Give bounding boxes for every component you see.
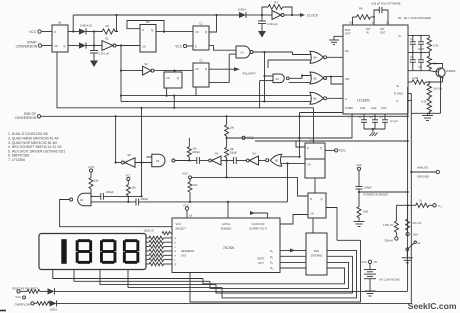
wire B1 Q-bar down and right (57, 52, 314, 143)
NOR gate B5 (310, 72, 343, 84)
svg-text:CK: CK (166, 76, 170, 80)
svg-text:9V 1.2Ah NiCAD: 9V 1.2Ah NiCAD (380, 278, 400, 282)
svg-text:CK: CK (142, 45, 146, 49)
svg-text:240µF: 240µF (364, 186, 372, 190)
svg-text:B1: B1 (58, 21, 62, 25)
corner mark (0, 310, 6, 312)
resistor 10k col 1 (pullup) with rail (187, 138, 200, 162)
flip-flop C3 (296, 139, 325, 178)
svg-text:+VCC: +VCC (87, 165, 94, 169)
terminal VCC at C3 Q (325, 149, 346, 153)
svg-text:OUT: OUT (345, 32, 351, 36)
driver output wrap-around loops (190, 240, 361, 302)
svg-text:10k: 10k (230, 126, 235, 130)
node to vertical feed (120, 44, 122, 101)
inverter S6 (left pointing) (116, 153, 152, 167)
svg-text:OUT: OUT (380, 31, 386, 35)
resistor 43k (427, 53, 438, 71)
series capacitor on A3 output line (191, 157, 209, 164)
svg-text:R4: R4 (359, 7, 363, 11)
svg-text:R3: R3 (274, 1, 278, 5)
svg-text:INT: INT (366, 27, 371, 31)
capacitor 0.0047 (418, 36, 425, 53)
flip-flop B1 (52, 21, 68, 52)
svg-text:V+: V+ (398, 34, 402, 38)
capacitor C1 (410, 36, 416, 53)
NAND gate A3 (147, 154, 192, 166)
power on reset RC (354, 163, 408, 227)
svg-text:7. LF13300: 7. LF13300 (8, 158, 25, 162)
svg-text:VCC: VCC (361, 260, 367, 264)
oscillator node (261, 14, 263, 16)
svg-text:10k: 10k (94, 179, 99, 183)
svg-text:D: D (307, 146, 309, 150)
svg-text:.01: .01 (418, 65, 422, 69)
svg-text:C2: C2 (410, 55, 414, 59)
svg-text:SW: SW (345, 77, 350, 81)
svg-text:C1: C1 (199, 21, 203, 25)
svg-text:Q: Q (321, 197, 323, 201)
svg-text:DS75492: DS75492 (311, 254, 323, 258)
flip-flop D2 (164, 71, 182, 88)
svg-text:CLOCK IN: CLOCK IN (252, 222, 265, 226)
terminal VCC (top left) (29, 30, 52, 34)
svg-text:26V: 26V (413, 233, 418, 237)
carry out stub and arrow (250, 211, 268, 218)
transistor Q1 2N2904 (429, 64, 456, 79)
svg-text:LF13300: LF13300 (357, 99, 370, 103)
svg-text:B5: B5 (314, 76, 318, 80)
digit driver DD1 DS75492 (306, 233, 327, 275)
divider: junction to VIN (408, 199, 442, 208)
svg-text:VCC: VCC (15, 295, 21, 299)
svg-text:R2: R2 (345, 49, 349, 53)
svg-text:VCC: VCC (175, 44, 182, 48)
terminal VCC mid (on y138 wire) (242, 136, 254, 140)
U1 bottom capacitors 0.1uF (361, 114, 398, 130)
svg-text:CK: CK (195, 30, 199, 34)
resistor 170k 1% branch (383, 205, 408, 242)
capacitor 0.01 (418, 53, 425, 71)
svg-text:200µF: 200µF (192, 150, 200, 154)
svg-text:DD1: DD1 (314, 249, 320, 253)
svg-text:(CARRY OUT): (CARRY OUT) (249, 227, 267, 231)
NAND gate A2 (260, 74, 311, 108)
svg-text:OUT: OUT (181, 254, 187, 258)
svg-text:POSITIVE POLARITY: POSITIVE POLARITY (12, 286, 39, 290)
diode D2 (1N914) (68, 42, 102, 48)
VCC terminal for LEDs (15, 295, 25, 299)
svg-text:6.2k: 6.2k (421, 100, 427, 104)
mid bus wires (120, 87, 311, 109)
svg-text:OUT: OUT (258, 261, 264, 265)
svg-text:10k: 10k (193, 183, 198, 187)
terminal START CONVERSION (16, 41, 52, 49)
display digit 1 (61, 239, 66, 264)
main right vertical buses (407, 88, 413, 304)
svg-text:D: D (310, 197, 312, 201)
NOR gate B2b (left pointing) (266, 154, 305, 202)
svg-text:CK: CK (195, 67, 199, 71)
svg-text:POLARITY: POLARITY (243, 72, 256, 76)
svg-text:VCC: VCC (182, 171, 188, 175)
svg-text:CH2: CH2 (371, 106, 377, 110)
svg-text:10k 1%: 10k 1% (433, 87, 443, 91)
svg-text:D₄: D₄ (270, 266, 273, 270)
svg-text:VCC: VCC (176, 222, 182, 226)
counter digit outputs to driver (280, 248, 306, 268)
svg-text:OVERFLOW: OVERFLOW (15, 303, 31, 307)
svg-text:CLOCK: CLOCK (307, 14, 319, 18)
svg-text:S2: S2 (144, 62, 148, 66)
svg-text:V₂₀: V₂₀ (438, 204, 442, 208)
carry to C4 clock (280, 215, 308, 225)
svg-text:Q: Q (320, 146, 322, 150)
NAND gate A1 (209, 46, 293, 101)
selector switch (402, 241, 421, 263)
display digit 8 (units) (123, 239, 139, 264)
wire C4 to driver (312, 218, 314, 233)
svg-text:CK: CK (54, 44, 58, 48)
svg-text:D₃: D₃ (270, 261, 273, 265)
capacitor C2 (410, 53, 416, 71)
svg-text:LATCH: LATCH (222, 222, 231, 226)
svg-text:2N2904: 2N2904 (446, 69, 456, 73)
ground (oscillator cap) (258, 31, 266, 38)
svg-text:ANALOG: ANALOG (417, 166, 428, 170)
battery VCC 9V NiCAD (361, 260, 399, 296)
svg-text:0.05 µF POLYSTYRENE: 0.05 µF POLYSTYRENE (371, 2, 401, 6)
svg-text:10k: 10k (131, 186, 136, 190)
svg-text:.0047: .0047 (418, 47, 425, 51)
stub from x226.6 chain to latch line (192, 176, 309, 196)
positive polarity LED (12, 286, 408, 294)
svg-text:74C926: 74C926 (223, 246, 234, 250)
feedback resistor R3 (262, 1, 292, 15)
terminal END OF CONVERSION (15, 112, 408, 120)
resistor 27k 1% branch (406, 205, 422, 236)
inverter S5 (left pointing) (209, 152, 227, 166)
svg-text:SELECT: SELECT (176, 227, 187, 231)
svg-text:A3: A3 (156, 159, 160, 163)
svg-text:DIGIT: DIGIT (257, 257, 265, 261)
svg-text:S4: S4 (252, 152, 256, 156)
svg-text:CH3: CH3 (381, 106, 387, 110)
svg-text:Q: Q (151, 28, 153, 32)
svg-text:VCC: VCC (339, 149, 346, 153)
svg-text:CONVERSION: CONVERSION (16, 45, 38, 49)
display bezel (39, 234, 146, 270)
inverter S2b lower (121, 62, 193, 75)
vertical feed S6 node (115, 116, 117, 163)
VCC terminal at counter pin 18 (183, 204, 192, 219)
NOR gate B4 (268, 51, 343, 68)
svg-text:C1: C1 (410, 37, 414, 41)
ground below U1 caps (370, 129, 378, 136)
svg-text:Q: Q (205, 67, 207, 71)
svg-text:V−: V− (396, 99, 400, 103)
U1 pin 1 wire to left (227, 114, 384, 138)
ground at divider bottom (411, 77, 440, 121)
svg-text:POWER ON RESET: POWER ON RESET (364, 192, 389, 196)
svg-text:R1 · R2 = 12.1k MATCHED: R1 · R2 = 12.1k MATCHED (398, 16, 431, 20)
latch enable stub down to counter (227, 202, 229, 218)
svg-text:15: 15 (370, 115, 373, 119)
VCC pullup column 1 (A4 input) (87, 165, 99, 197)
svg-text:VCC: VCC (29, 30, 36, 34)
svg-text:10k: 10k (192, 147, 197, 151)
svg-text:D: D (195, 45, 197, 49)
diode D1 (1N914) (68, 28, 100, 34)
svg-text:D: D (54, 30, 56, 34)
svg-text:170k 1%: 170k 1% (383, 223, 394, 227)
svg-text:A1: A1 (241, 51, 245, 55)
ground stub at A/D left pin (329, 36, 343, 44)
C4 Q to outer loop (326, 208, 337, 241)
vertical x288.8 bus (298, 113, 343, 158)
terminal VCC at C1 (175, 44, 193, 48)
svg-text:B2: B2 (275, 159, 279, 163)
svg-text:16: 16 (349, 21, 352, 25)
oscillator: diode 1N914 into clock inverter (238, 7, 262, 18)
svg-text:IN: IN (366, 31, 369, 35)
overflow LED (15, 300, 412, 311)
oscillator timing capacitor 0.001uF (258, 15, 278, 31)
svg-text:C: C (345, 97, 347, 101)
NAND gate A4 (left pointing) (60, 108, 172, 227)
svg-text:D3: D3 (310, 139, 314, 143)
capacitor 0.001uF at node (90, 46, 110, 61)
svg-text:0.001 µF: 0.001 µF (267, 22, 278, 26)
resistor R4 on top of U1 (353, 7, 375, 25)
resistor 10k col 2 (x226.6 vertical chain) (225, 116, 238, 177)
flip-flop C1 (193, 21, 209, 50)
node and wire up to top rail (72, 14, 239, 33)
digit select wires to bus (53, 270, 222, 288)
resistor 10k 1% (427, 82, 442, 98)
svg-text:10k: 10k (230, 147, 235, 151)
analog ground terminal (411, 166, 439, 179)
svg-text:SeekIC.com: SeekIC.com (408, 301, 457, 311)
series capacitor 2 (227, 157, 247, 164)
svg-text:Q: Q (64, 44, 66, 48)
svg-text:14: 14 (372, 21, 375, 25)
svg-text:Q: Q (177, 76, 179, 80)
svg-text:R GND: R GND (394, 92, 403, 96)
svg-text:CK: CK (307, 163, 311, 167)
svg-text:VCC: VCC (183, 204, 189, 208)
svg-text:S1: S1 (105, 36, 109, 40)
svg-text:0.1 µF: 0.1 µF (390, 119, 398, 123)
svg-text:S5: S5 (215, 152, 219, 156)
resistor R (1M) top (100, 24, 118, 34)
display digit 8 (hundreds) (76, 239, 92, 264)
svg-text:BUF: BUF (345, 28, 351, 32)
svg-text:18: 18 (189, 214, 192, 218)
inverter S2 (oscillator) (262, 11, 300, 20)
display digit 8 (tens) (100, 239, 116, 264)
svg-text:3.3k: 3.3k (433, 44, 439, 48)
long mid wires y138 y141 (227, 138, 409, 142)
svg-text:200µF: 200µF (106, 190, 114, 194)
resistor 3.3k (427, 36, 439, 53)
svg-text:C2: C2 (199, 59, 203, 63)
svg-text:150Ω (7): 150Ω (7) (144, 228, 155, 232)
svg-text:VCC: VCC (125, 173, 131, 177)
node at diode junction (93, 30, 95, 50)
flip-flop C2 (193, 59, 209, 87)
svg-text:B4: B4 (314, 56, 318, 60)
svg-text:100k: 100k (363, 210, 369, 214)
notes list (8, 132, 65, 162)
svg-text:S6: S6 (127, 153, 131, 157)
flip-flop C4 (308, 193, 326, 218)
svg-text:D₂: D₂ (270, 255, 273, 259)
series capacitor on latch line (136, 197, 288, 206)
svg-text:200µF: 200µF (141, 197, 149, 201)
svg-text:CH1: CH1 (360, 106, 366, 110)
svg-text:1N914: 1N914 (238, 7, 246, 11)
flip-flop B2 with feedback loop (127, 20, 193, 52)
svg-text:COMP: COMP (345, 106, 353, 110)
svg-text:VCC: VCC (356, 163, 362, 167)
svg-text:2.2M: 2.2M (412, 76, 419, 80)
svg-text:200µF: 200µF (230, 151, 238, 155)
svg-text:A2: A2 (276, 77, 280, 81)
segment resistors 150 ohm x7 (144, 228, 173, 266)
svg-text:VCC: VCC (247, 136, 254, 140)
VCC pullup column 2 (125, 173, 136, 203)
resistor 6.2k 1% (421, 97, 431, 114)
ground (below capacitor) (90, 61, 98, 68)
polarity arrow (209, 67, 257, 75)
inverter S4 (left pointing) (246, 152, 265, 166)
svg-text:0.001 µF: 0.001 µF (99, 52, 110, 56)
svg-text:10: 10 (359, 115, 362, 119)
svg-text:17: 17 (380, 115, 383, 119)
NOR gate B6 (310, 92, 343, 104)
svg-text:1N914 (2): 1N914 (2) (80, 23, 92, 27)
capacitor 0.05uF polystyrene on top of U1 (371, 2, 431, 25)
svg-text:LEDS: LEDS (50, 308, 57, 312)
inverter S1 (102, 36, 140, 50)
svg-text:ENABLE: ENABLE (221, 227, 232, 231)
svg-text:27k 1%: 27k 1% (413, 221, 423, 225)
svg-text:INT: INT (380, 27, 385, 31)
VCC pullup column 3 (182, 171, 198, 203)
op-amp/ADC IC U1 LF13300 (343, 21, 408, 115)
svg-text:A4: A4 (80, 198, 84, 202)
svg-text:CONVERSION: CONVERSION (15, 116, 37, 120)
wire C1 Qbar to top rail (209, 15, 217, 32)
counter IC 74C926 (172, 218, 280, 273)
svg-text:9V: 9V (374, 260, 377, 264)
svg-text:D: D (142, 28, 144, 32)
svg-text:CK: CK (310, 212, 314, 216)
wire C3 to C4 (314, 178, 316, 197)
svg-text:SEGMENT: SEGMENT (181, 249, 195, 253)
svg-text:GROUND: GROUND (417, 175, 429, 179)
svg-text:200mV: 200mV (384, 239, 393, 243)
clock output arrow (300, 13, 319, 18)
resistor 2.2M horizontal (408, 76, 443, 84)
svg-text:D₁: D₁ (270, 249, 273, 253)
svg-text:Q: Q (205, 30, 207, 34)
right RC network rails (408, 35, 429, 71)
svg-text:B6: B6 (314, 97, 318, 101)
wire C1 Q to gate A1 (209, 46, 236, 51)
